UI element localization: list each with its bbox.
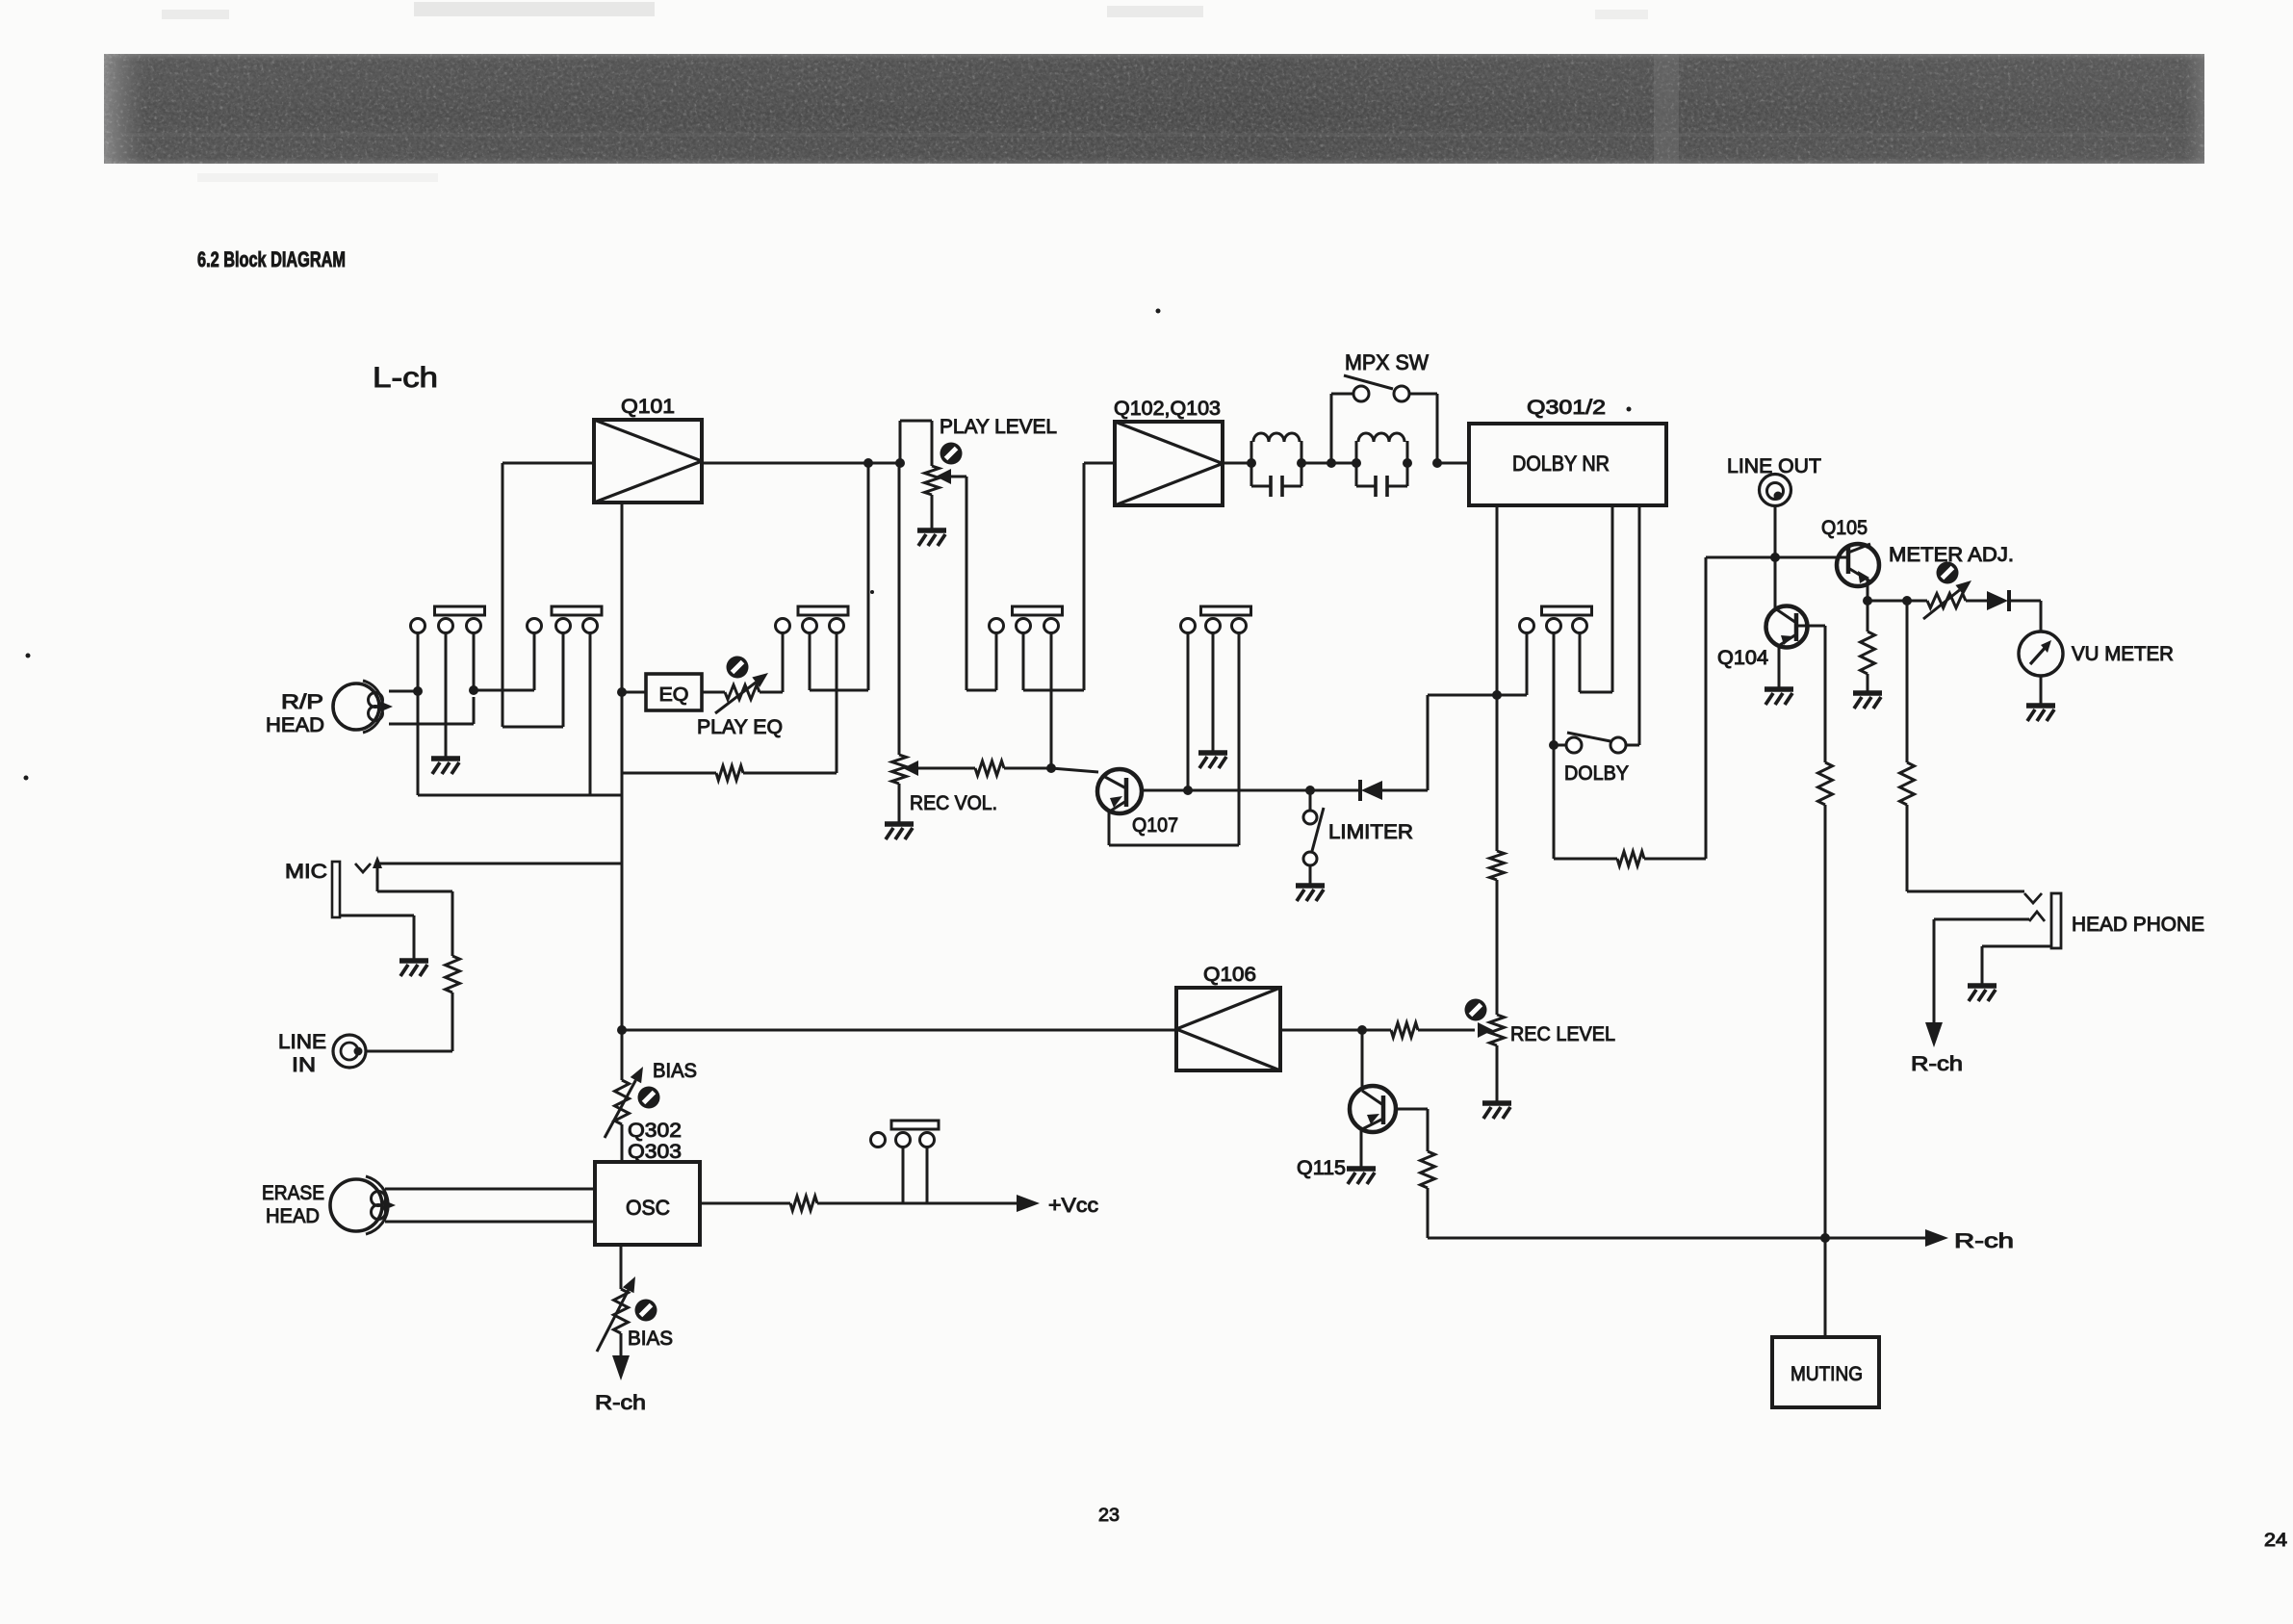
switch S3 bar <box>798 606 848 615</box>
wire S5-B stem to ground <box>1212 633 1215 752</box>
ground under S1-B <box>431 759 460 774</box>
switch DOLBY <box>1554 733 1626 753</box>
wire S3-C stem down <box>836 633 838 774</box>
ground under PLAY LEVEL <box>917 530 946 546</box>
wire REC LEVEL to ground <box>1496 1045 1499 1101</box>
label LINE IN <box>278 1031 326 1076</box>
ground under REC VOL <box>885 824 914 839</box>
switch S6 contact B <box>1547 619 1561 633</box>
wire trimmer to S3 lone contact <box>760 633 783 693</box>
node DOLBY switch <box>1549 740 1559 750</box>
svg-text:PLAY LEVEL: PLAY LEVEL <box>940 416 1057 438</box>
svg-text:Q102,Q103: Q102,Q103 <box>1114 398 1221 420</box>
node meter line B <box>1902 596 1912 606</box>
switch S5 bar <box>1201 606 1251 615</box>
switch S4 bar <box>1013 606 1063 615</box>
wire headphone sleeve <box>1982 946 2051 984</box>
svg-text:REC LEVEL: REC LEVEL <box>1510 1023 1615 1045</box>
connector LINE OUT <box>1760 475 1791 506</box>
svg-text:R/P: R/P <box>281 691 323 713</box>
resistor REC line <box>975 761 1004 776</box>
label L-ch <box>373 362 438 394</box>
wire head bottom rail <box>389 697 474 724</box>
ground under Q115 <box>1347 1169 1376 1184</box>
svg-text:R-ch: R-ch <box>1954 1230 2014 1252</box>
svg-text:METER ADJ.: METER ADJ. <box>1889 544 2014 566</box>
wire Q106 output <box>1280 1029 1362 1032</box>
svg-text:Q303: Q303 <box>628 1141 682 1163</box>
wire resistor to Q107 <box>1004 768 1098 772</box>
label METER ADJ. <box>1889 544 2014 566</box>
wire S4-B to Q102 input riser <box>1023 463 1115 690</box>
svg-text:24: 24 <box>2264 1531 2287 1551</box>
svg-text:HEAD: HEAD <box>266 1205 320 1227</box>
wire Q101 bottom bus <box>621 503 624 1080</box>
label R-ch right <box>1954 1230 2014 1252</box>
svg-text:Q106: Q106 <box>1203 964 1256 986</box>
wire OSC bottom <box>620 1245 623 1289</box>
arrow R-ch right <box>1925 1229 1948 1247</box>
switch S3 contact B <box>803 619 817 633</box>
trimmer METER ADJ <box>1923 562 1971 620</box>
diode limiter <box>1360 780 1382 801</box>
transistor Q105 <box>1837 544 1879 586</box>
svg-text:DOLBY NR: DOLBY NR <box>1512 451 1610 476</box>
resistor feedback <box>716 766 743 781</box>
svg-text:VU METER: VU METER <box>2072 643 2174 665</box>
LC trap 1 <box>1251 433 1301 497</box>
node Q101 output B <box>895 458 905 468</box>
wire diode to VU meter <box>2009 601 2041 632</box>
label Q301/2 <box>1527 397 1606 419</box>
svg-text:Q301/2: Q301/2 <box>1527 397 1606 419</box>
svg-text:MIC: MIC <box>285 861 327 883</box>
wire Q104 collector riser <box>1774 557 1777 609</box>
trimmer BIAS lower <box>597 1276 657 1352</box>
label +Vcc <box>1048 1195 1098 1217</box>
node DOLBY output <box>1492 690 1502 700</box>
wire to DOLBY NR <box>1437 462 1469 465</box>
resistor to REC LEVEL wiper <box>1391 1023 1418 1038</box>
label VU METER <box>2072 643 2174 665</box>
amplifier Q101 <box>594 420 702 503</box>
svg-text:REC VOL.: REC VOL. <box>910 792 997 814</box>
ground under REC LEVEL <box>1482 1103 1511 1119</box>
switch S2 contact C <box>583 619 598 633</box>
wire node to S2 lone contact <box>474 633 534 691</box>
potentiometer PLAY LEVEL <box>925 443 963 496</box>
label Q101 <box>621 396 675 418</box>
wire erase head to OSC top <box>385 1188 595 1191</box>
wire trimmer to OSC <box>621 1124 624 1162</box>
arrow R-ch headphone <box>1925 1022 1943 1047</box>
wire Q104 emitter to ground <box>1778 646 1781 687</box>
ground under LIMITER <box>1296 886 1325 901</box>
page number 23 <box>1098 1506 1120 1526</box>
switch S2 bar <box>552 606 602 615</box>
svg-text:HEAD PHONE: HEAD PHONE <box>2072 914 2204 936</box>
node MPX left <box>1327 458 1336 468</box>
diode meter <box>1987 590 2009 611</box>
wire resistor to LINE IN <box>366 992 452 1051</box>
transistor Q115 <box>1350 1086 1396 1132</box>
switch S6 contact A <box>1520 619 1534 633</box>
wire Q115 base right <box>1395 1109 1428 1151</box>
headphone jack <box>2024 893 2061 948</box>
block MUTING <box>1772 1337 1879 1407</box>
wire resistor to REC LEVEL <box>1496 880 1499 1015</box>
wire S1-C stem <box>473 633 476 691</box>
faint smudges above band <box>162 2 1648 182</box>
wire S6-B stem down <box>1553 633 1556 860</box>
label PLAY LEVEL <box>940 416 1057 438</box>
svg-text:Q115: Q115 <box>1297 1157 1346 1179</box>
wire DOLBY pin3 down <box>1626 505 1639 745</box>
switch S5 contact C <box>1232 619 1247 633</box>
switch S4 contact C <box>1044 619 1059 633</box>
wire headphone feed <box>1906 601 1909 762</box>
mic jack MIC <box>332 856 382 917</box>
ground under headphone <box>1968 986 1997 1001</box>
node filter A <box>1247 458 1256 468</box>
wire S4-A to wiper line <box>966 633 996 691</box>
potentiometer REC VOL <box>892 755 907 784</box>
wire to +Vcc <box>817 1202 1017 1205</box>
switch S1 contact B <box>439 619 453 633</box>
node Q106 output <box>1357 1025 1367 1035</box>
page number 24 <box>2264 1531 2287 1551</box>
wire between traps <box>1301 462 1356 465</box>
resistor headphone <box>1900 762 1915 805</box>
ground under VU meter <box>2026 706 2055 721</box>
wire Q104 base to muting line <box>1796 626 1825 762</box>
ground under MIC <box>399 961 428 976</box>
wire bus to Q101 feedback rail <box>418 794 622 797</box>
wire to wiper <box>1362 1029 1475 1032</box>
wire Q115 collector <box>1361 1030 1364 1091</box>
svg-text:BIAS: BIAS <box>628 1328 673 1350</box>
node limiter line B <box>1305 786 1315 795</box>
node MPX right <box>1432 458 1442 468</box>
wire MIC contact to resistor <box>377 891 452 956</box>
label LIMITER <box>1328 821 1413 843</box>
wire MIC tap corner <box>621 863 624 865</box>
amplifier Q106 <box>1176 988 1280 1070</box>
resistor Q115 <box>1421 1151 1435 1188</box>
wire OSC output <box>700 1202 790 1205</box>
node S1-C junction <box>469 685 478 695</box>
wire Q107 base line <box>1142 789 1359 792</box>
node filter D <box>1403 458 1412 468</box>
switch LIMITER <box>1303 790 1324 884</box>
erase head <box>330 1176 396 1234</box>
node meter line A <box>1863 596 1872 606</box>
ground under Q105 resistor <box>1853 693 1882 709</box>
specks <box>24 309 1632 781</box>
switch S2 contact A <box>528 619 542 633</box>
svg-text:LINE: LINE <box>278 1031 326 1053</box>
wire S2-C stem down <box>589 633 592 796</box>
switch S1 contact C <box>467 619 481 633</box>
svg-text:23: 23 <box>1098 1506 1120 1526</box>
wire VU meter to ground <box>2040 676 2043 704</box>
switch S7 bar <box>891 1121 939 1129</box>
svg-text:LIMITER: LIMITER <box>1328 821 1413 843</box>
node filter C <box>1352 458 1361 468</box>
label MIC <box>285 861 327 883</box>
label R/P HEAD <box>266 691 324 736</box>
resistor OSC output <box>790 1197 817 1211</box>
svg-text:ERASE: ERASE <box>262 1182 324 1204</box>
label Q107 <box>1132 814 1178 837</box>
wire S1-A stem down <box>417 633 420 796</box>
wire DOLBY pin1 down <box>1496 505 1499 695</box>
switch S1 contact A <box>411 619 425 633</box>
svg-text:DOLBY: DOLBY <box>1564 762 1629 785</box>
trimmer PLAY EQ <box>715 657 768 714</box>
wire diode to DOLBY output node <box>1382 695 1497 790</box>
node limiter line A <box>1183 786 1193 795</box>
label Q115 <box>1297 1157 1346 1179</box>
svg-text:EQ: EQ <box>659 684 689 706</box>
svg-text:IN: IN <box>292 1054 316 1076</box>
label HEAD PHONE <box>2072 914 2204 936</box>
wire riser to PLAY LEVEL pot <box>900 421 932 466</box>
wire to R-ch arrow <box>620 1333 623 1355</box>
switch S7 lone contact <box>871 1133 886 1147</box>
svg-text:MPX SW: MPX SW <box>1345 350 1429 374</box>
arrow +Vcc <box>1017 1195 1040 1212</box>
svg-text:Q105: Q105 <box>1821 517 1868 539</box>
svg-text:Q104: Q104 <box>1717 647 1768 669</box>
wire head top to node <box>389 690 418 693</box>
svg-text:Q107: Q107 <box>1132 814 1178 837</box>
switch S4 contact A <box>990 619 1004 633</box>
switch S1 bar <box>435 606 485 615</box>
wiper REC LEVEL <box>1478 1022 1493 1038</box>
wire REC VOL to ground <box>898 784 901 822</box>
svg-text:R-ch: R-ch <box>1911 1053 1963 1075</box>
label MPX SW <box>1345 350 1429 374</box>
wire S3-B to Q101 output node <box>810 463 868 690</box>
meter VU METER <box>2019 632 2063 676</box>
wire resistor to R-ch line <box>1427 1188 1430 1238</box>
node muting R-ch <box>1820 1233 1830 1243</box>
resistor muting line <box>1818 762 1833 805</box>
block DOLBY NR Q301/2 <box>1469 424 1666 505</box>
ground under S5-B <box>1198 753 1227 768</box>
wire DOLBY output down <box>1496 695 1499 851</box>
LC trap 2 <box>1356 433 1407 497</box>
wire feedback resistor run <box>622 772 837 775</box>
label Q302 Q303 <box>628 1120 682 1163</box>
wire Q107 emitter loop <box>1109 633 1239 846</box>
svg-text:Q302: Q302 <box>628 1120 682 1142</box>
wiper PLAY LEVEL <box>936 469 966 690</box>
svg-text:BIAS: BIAS <box>653 1060 697 1082</box>
svg-text:PLAY EQ: PLAY EQ <box>697 716 783 738</box>
svg-text:OSC: OSC <box>626 1196 670 1220</box>
wire R-ch line <box>1428 1237 1925 1240</box>
trimmer BIAS upper <box>605 1067 660 1138</box>
label Q106 <box>1203 964 1256 986</box>
wire S4-C stem to REC node <box>1050 633 1053 769</box>
wire trimmer to diode <box>1966 600 1987 603</box>
node head top <box>413 686 423 696</box>
resistor above REC LEVEL <box>1490 851 1505 880</box>
label ERASE HEAD <box>262 1182 324 1227</box>
svg-text:HEAD: HEAD <box>266 714 324 736</box>
switch S3 contact C <box>830 619 844 633</box>
arrow R-ch lower left <box>612 1355 630 1380</box>
wire monitor bus <box>1706 556 1837 559</box>
wire S7-B stem <box>926 1147 929 1204</box>
label DOLBY <box>1564 762 1629 785</box>
switch MPX SW <box>1331 375 1437 463</box>
resistor under Q105 <box>1861 601 1875 691</box>
wire muting line down <box>1824 805 1827 1337</box>
wire DOLBY feedback run <box>1554 557 1706 859</box>
wire PLAY LEVEL to ground <box>931 495 934 528</box>
wire headphone R-ch <box>1934 919 2029 1022</box>
svg-text:LINE OUT: LINE OUT <box>1727 455 1821 477</box>
switch S6 bar <box>1542 606 1592 615</box>
node Q101 output A <box>863 458 873 468</box>
wire S5-A stem <box>1187 633 1190 791</box>
label Q104 <box>1717 647 1768 669</box>
amplifier Q102 Q103 <box>1115 422 1223 505</box>
svg-text:Q101: Q101 <box>621 396 675 418</box>
label R-ch headphone <box>1911 1053 1963 1075</box>
wire headphone feed lower <box>1907 805 2024 891</box>
ground under Q104 <box>1765 689 1793 705</box>
wire S7-A stem <box>902 1147 905 1204</box>
wiper REC VOL <box>903 760 975 776</box>
wire S1-B stem to ground <box>445 633 448 758</box>
label Q102,Q103 <box>1114 398 1221 420</box>
node bias bus <box>617 1025 627 1035</box>
transistor Q104 <box>1766 606 1808 648</box>
svg-text:MUTING: MUTING <box>1791 1363 1863 1385</box>
wire EQ to trimmer <box>702 691 725 694</box>
switch S5 contact A <box>1181 619 1196 633</box>
wire Q115 emitter to ground <box>1360 1129 1363 1167</box>
label R-ch lower left <box>595 1392 646 1414</box>
label LINE OUT <box>1727 455 1821 477</box>
wire DOLBY pin2 to S6-C <box>1580 505 1612 692</box>
wire MIC sleeve to ground <box>340 915 414 959</box>
node filter B <box>1297 458 1306 468</box>
switch S5 contact B <box>1206 619 1221 633</box>
connector LINE IN <box>333 1035 366 1068</box>
section title <box>197 247 346 271</box>
wire node to S6 lone <box>1497 633 1527 696</box>
switch S6 contact C <box>1573 619 1587 633</box>
switch S4 contact B <box>1017 619 1031 633</box>
svg-text:R-ch: R-ch <box>595 1392 646 1414</box>
label REC LEVEL <box>1510 1023 1615 1045</box>
scanner artifact band (dark strip) <box>104 54 2204 164</box>
potentiometer REC LEVEL <box>1465 999 1505 1046</box>
wire Q101 input path <box>502 463 594 727</box>
R/P head <box>333 681 393 733</box>
switch S3 contact A <box>776 619 790 633</box>
wire erase head to OSC bottom <box>385 1221 595 1224</box>
label Q105 <box>1821 517 1868 539</box>
wire MIC tip line <box>377 863 622 865</box>
label PLAY EQ <box>697 716 783 738</box>
node REC line <box>1046 763 1056 773</box>
wire Q101 output <box>702 462 900 465</box>
label BIAS upper <box>653 1060 697 1082</box>
svg-text:+Vcc: +Vcc <box>1048 1195 1098 1217</box>
wire bias bus to Q106 <box>622 1029 1176 1032</box>
node EQ tap on feedback rail <box>617 687 627 697</box>
switch S2 contact B <box>556 619 571 633</box>
wire Q105 emitter down <box>1867 579 1869 601</box>
resistor DOLBY feedback <box>1617 852 1644 866</box>
wire Q101 node down to REC VOL <box>898 463 901 755</box>
wire Q102 output <box>1223 462 1251 465</box>
wire meter line <box>1868 600 1927 603</box>
block EQ <box>646 674 702 710</box>
svg-text:L-ch: L-ch <box>373 362 438 394</box>
wire to EQ box <box>622 691 646 694</box>
svg-text:6.2 Block DIAGRAM: 6.2 Block DIAGRAM <box>197 247 346 271</box>
wire LINE OUT stem <box>1774 505 1777 557</box>
switch S7 contact A <box>896 1133 911 1147</box>
node LINE OUT <box>1770 553 1780 562</box>
switch S7 contact B <box>920 1133 935 1147</box>
label REC VOL. <box>910 792 997 814</box>
resistor MIC-LINE <box>446 956 460 992</box>
block OSC Q302 Q303 <box>595 1162 700 1245</box>
transistor Q107 <box>1097 769 1142 813</box>
label BIAS lower <box>628 1328 673 1350</box>
